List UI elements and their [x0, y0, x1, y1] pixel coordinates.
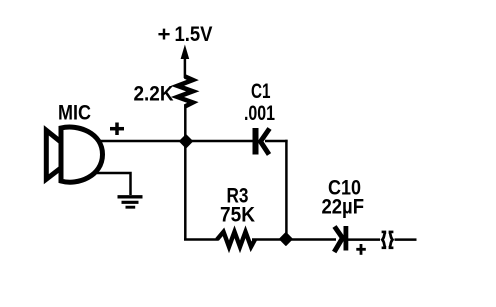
svg-text:75K: 75K: [220, 204, 255, 227]
wire C1 to right corner: [265, 140, 288, 143]
C1 curved plate: [261, 129, 270, 155]
wire right vertical branch: [285, 140, 288, 240]
C1 straight plate: [253, 128, 259, 155]
wire output: [395, 238, 417, 241]
microphone MIC (speaker-style symbol): [46, 127, 102, 182]
svg-text:+: +: [158, 23, 171, 46]
wire C10 to break: [348, 238, 380, 241]
svg-text:22µF: 22µF: [322, 196, 365, 219]
wire mic bottom to ground: [96, 173, 131, 195]
wire resistor 2.2K to node A: [184, 105, 187, 141]
supply arrow +1.5V: [181, 45, 190, 79]
capsule body: [61, 127, 103, 182]
svg-text:.001: .001: [244, 102, 275, 125]
cone: [46, 130, 61, 179]
cable break symbol (left brace): [382, 232, 387, 248]
resistor R3 (horizontal zigzag): [217, 232, 255, 247]
svg-text:2.2K: 2.2K: [134, 82, 174, 105]
wire node A down left branch: [184, 141, 187, 240]
plus sign at C10: [356, 244, 366, 255]
capacitor C1: [253, 128, 270, 155]
wire bottom rail left: [184, 238, 218, 241]
ground: [118, 197, 143, 207]
resistor 2.2K (vertical zigzag): [178, 77, 193, 107]
node B junction dot: [280, 233, 292, 245]
C10 curved plate: [334, 227, 342, 253]
C10 straight plate: [344, 226, 349, 251]
cable break symbol (right brace): [389, 232, 394, 248]
plus sign at mic output: [110, 123, 124, 136]
svg-text:MIC: MIC: [58, 101, 91, 124]
wire mic top output to node A: [96, 140, 253, 143]
node A junction dot: [180, 135, 192, 147]
wire R3 to C10: [252, 238, 336, 241]
capacitor C10 (polarized): [334, 226, 348, 252]
svg-text:1.5V: 1.5V: [175, 23, 213, 46]
svg-text:C1: C1: [251, 80, 271, 103]
